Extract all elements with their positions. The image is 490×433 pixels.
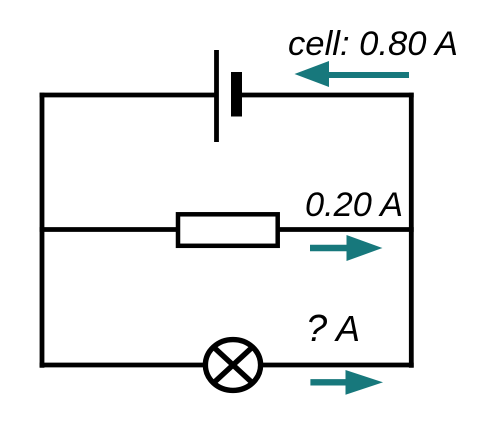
wire: top-left segment to cell [40,93,216,98]
arrow: cell current direction (left) [295,61,410,87]
svg-text:cell: 0.80 A: cell: 0.80 A [288,25,458,63]
wire: bottom-right segment from lamp [260,363,414,368]
svg-text:?: ? [306,308,328,350]
wire: right vertical side [409,93,414,368]
wire: top-right segment from cell [242,93,414,98]
lamp cross stroke 1 [214,347,253,383]
wire: middle-left segment to resistor [40,227,178,232]
resistor [178,214,278,246]
wire: middle-right segment from resistor [278,227,414,232]
svg-text:0.20 A: 0.20 A [305,186,403,224]
arrow: lamp current direction (right) [310,370,383,395]
lamp body circle [205,340,260,391]
svg-text:A: A [334,308,360,349]
wire: left vertical side [40,93,45,368]
cell long plate (positive) [214,50,219,142]
wire: bottom-left segment to lamp [40,363,206,368]
lamp cross stroke 2 [214,347,253,383]
cell short thick plate (negative) [231,72,242,117]
arrow: resistor current direction (right) [310,235,383,261]
